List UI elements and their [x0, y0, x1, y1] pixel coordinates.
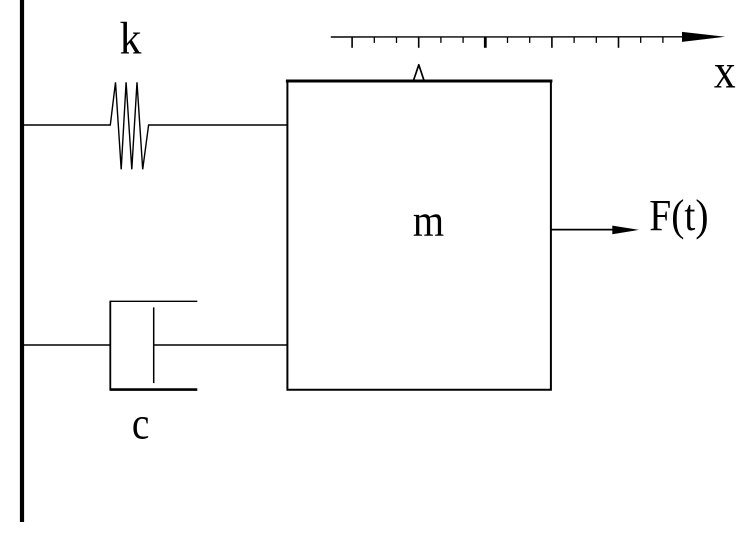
- ruler tick 6: [462, 37, 464, 43]
- position caret marker: [414, 65, 424, 80]
- ruler tick 11: [573, 37, 575, 43]
- mass block top edge (thicker): [286, 80, 553, 83]
- damper rod to mass: [154, 344, 287, 346]
- damper C1 cylinder top: [110, 300, 197, 302]
- ruler tick 12: [595, 37, 597, 43]
- wall: [20, 0, 24, 522]
- svg-text:F(t): F(t): [649, 190, 708, 240]
- ruler tick 5: [440, 37, 442, 43]
- svg-text:m: m: [413, 195, 444, 246]
- mass block m: [287, 81, 551, 390]
- force arrowhead: [612, 226, 639, 235]
- svg-text:k: k: [120, 13, 142, 64]
- ruler tick 3: [396, 37, 398, 43]
- ruler tick 1 (long): [351, 37, 353, 48]
- damper cylinder left wall: [109, 301, 111, 391]
- damper cylinder bottom (thick): [110, 388, 197, 391]
- svg-text:c: c: [132, 397, 150, 448]
- ruler tick 10 (long): [551, 37, 553, 48]
- damper piston: [153, 307, 155, 383]
- ruler tick 4 (long): [418, 37, 420, 48]
- force arrow line F(t): [550, 229, 618, 231]
- damper wire from wall: [24, 344, 110, 346]
- ruler tick 7 (long thick): [484, 37, 487, 48]
- ruler tick 13 (long): [618, 37, 620, 48]
- ruler tick 8: [507, 37, 509, 43]
- ruler tick 2: [373, 37, 375, 43]
- ruler tick 14: [640, 37, 642, 43]
- svg-text:x: x: [714, 43, 736, 98]
- ruler arrowhead: [682, 32, 725, 42]
- ruler tick 15: [662, 37, 664, 43]
- ruler axis line: [331, 36, 700, 38]
- ruler tick 9: [529, 37, 531, 43]
- spring k wire + coils: [24, 82, 287, 169]
